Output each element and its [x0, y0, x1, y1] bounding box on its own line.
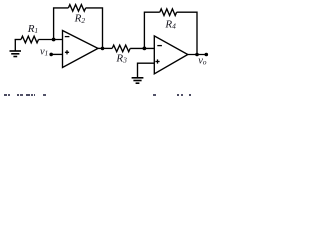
- node U2 output junction: [195, 53, 199, 57]
- wire feedback R4 left leg up: [144, 12, 159, 48]
- svg-text:R1: R1: [27, 23, 38, 35]
- svg-text:v1: v1: [40, 46, 48, 57]
- node U1 output junction: [101, 47, 105, 51]
- resistor R3: [112, 45, 130, 52]
- wire U1 output to R3: [98, 47, 112, 49]
- caption text cropped at bottom edge: [0, 94, 222, 96]
- output terminal vo: [205, 53, 209, 57]
- ground GND1: [10, 40, 22, 57]
- resistor R2: [68, 5, 85, 12]
- wire feedback left leg up: [54, 8, 69, 40]
- resistor R1: [21, 36, 39, 43]
- node junction R3/R4: [143, 47, 147, 51]
- wire R1 to op-amp U1 inverting input: [39, 39, 63, 41]
- svg-text:R3: R3: [115, 53, 127, 65]
- ground GND2: [132, 78, 144, 83]
- svg-text:R2: R2: [74, 13, 86, 25]
- wire v1 to op-amp U1 non-inverting input: [51, 53, 62, 55]
- svg-text:vo: vo: [198, 56, 206, 67]
- wire ground to R1: [15, 39, 21, 41]
- node junction R1/R2: [52, 38, 56, 42]
- resistor R4: [160, 9, 177, 16]
- op-amp U2: [154, 36, 188, 74]
- wire feedback right leg down to U1 output: [86, 8, 103, 49]
- input terminal v1: [49, 53, 53, 57]
- op-amp U1: [63, 31, 99, 68]
- wire U2 output to vo terminal: [188, 54, 207, 56]
- wire U2 non-inverting input to ground: [138, 63, 155, 78]
- wire R3 to op-amp U2 inverting input: [130, 47, 154, 49]
- wire feedback R4 right leg down to U2 output: [177, 12, 197, 54]
- svg-text:R4: R4: [164, 18, 176, 30]
